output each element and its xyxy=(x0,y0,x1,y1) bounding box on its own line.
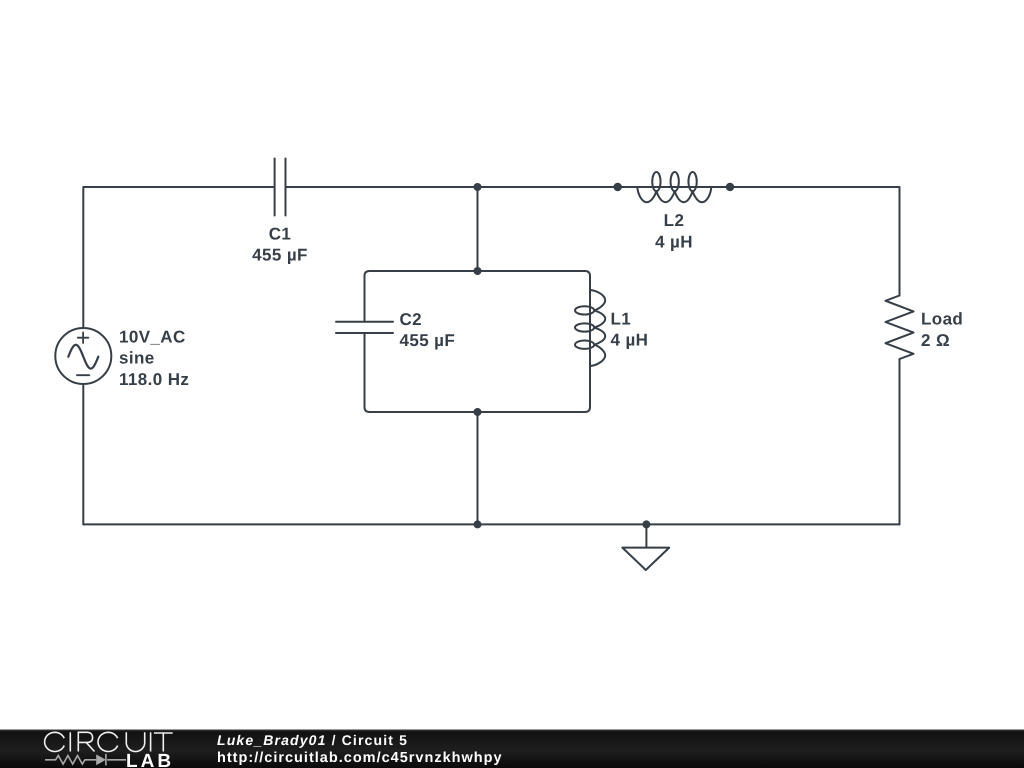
svg-text:455 µF: 455 µF xyxy=(252,246,308,265)
wire tank bottom to bottom rail xyxy=(477,412,479,524)
wire top rail left: source top to C1 left plate xyxy=(83,187,274,328)
svg-text:455 µF: 455 µF xyxy=(400,331,456,350)
voltage source V1 plus sign xyxy=(78,332,89,343)
wire source bottom to bottom-left corner xyxy=(82,384,84,524)
node dot L2 right terminal xyxy=(726,183,734,191)
wire load bottom to bottom-right corner xyxy=(899,359,901,524)
svg-text:L1: L1 xyxy=(611,309,632,328)
wire node A down to tank top xyxy=(477,187,479,271)
svg-text:Luke_Brady01 / Circuit 5: Luke_Brady01 / Circuit 5 xyxy=(217,732,408,748)
svg-text:2 Ω: 2 Ω xyxy=(921,331,950,350)
logo CIRCUIT text xyxy=(45,732,173,751)
label L2 xyxy=(655,211,693,251)
svg-text:4 µH: 4 µH xyxy=(611,331,649,350)
node dot at C1/L2/tank junction xyxy=(474,183,482,191)
voltage source V1 minus sign xyxy=(77,374,89,376)
svg-text:4 µH: 4 µH xyxy=(655,232,693,251)
inductor L1 arcs xyxy=(590,290,605,366)
ground symbol xyxy=(622,524,669,570)
capacitor C1 plates xyxy=(275,159,286,216)
logo resistor-diode wire xyxy=(45,754,126,766)
node dot ground junction xyxy=(642,520,650,528)
node dot tank bottom xyxy=(474,408,482,416)
capacitor C2 plates xyxy=(336,322,393,333)
svg-text:C1: C1 xyxy=(269,224,292,243)
svg-text:C2: C2 xyxy=(400,310,423,329)
inductor L2 loops xyxy=(652,172,660,191)
svg-text:10V_AC: 10V_AC xyxy=(119,327,186,346)
svg-text:sine: sine xyxy=(119,349,155,368)
wire bottom rail xyxy=(83,523,899,525)
node dot bottom rail center xyxy=(474,520,482,528)
inductor L2 arcs xyxy=(637,187,711,202)
svg-text:Load: Load xyxy=(921,310,963,329)
svg-text:118.0 Hz: 118.0 Hz xyxy=(119,370,189,389)
voltage source V1 sine wave xyxy=(68,345,98,369)
svg-text:LAB: LAB xyxy=(126,751,174,768)
svg-text:http://circuitlab.com/c45rvnzk: http://circuitlab.com/c45rvnzkhwhpy xyxy=(217,750,503,766)
label V1 value xyxy=(119,327,189,389)
resistor Load zigzag xyxy=(886,296,914,360)
label Load value xyxy=(921,310,963,350)
inductor L1 loops xyxy=(575,306,594,314)
label C2 xyxy=(400,310,456,350)
node dot L2 left terminal xyxy=(614,183,622,191)
label C1 xyxy=(252,224,308,264)
wire tank loop with C2 gap on left side xyxy=(365,271,591,412)
label L1 xyxy=(611,309,649,349)
svg-text:L2: L2 xyxy=(664,211,685,230)
voltage source V1 circle xyxy=(55,328,111,384)
node dot tank top xyxy=(474,267,482,275)
wire top rail right: C1 through L2 to top-right corner to load top xyxy=(286,187,900,296)
